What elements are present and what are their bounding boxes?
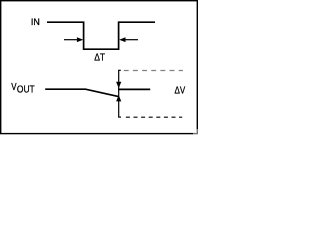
wire left ΔT arrow shaft	[64, 39, 78, 41]
up arrowhead	[116, 95, 121, 101]
wire IN waveform (high-low-high pulse)	[47, 22, 155, 49]
wire right ΔT arrow shaft	[125, 39, 138, 41]
svg-text:ΔV: ΔV	[175, 84, 186, 95]
border corner fade (bottom-right)	[193, 129, 200, 136]
right ΔT arrowhead	[119, 37, 125, 42]
border frame	[1, 1, 198, 134]
down arrowhead	[116, 82, 121, 88]
wire top dashed extension (gray)	[124, 70, 183, 72]
wire VOUT flat + droop slope	[45, 89, 118, 96]
wire bottom corner piece	[118, 116, 121, 118]
wire bottom dashed extension (black)	[126, 116, 182, 118]
svg-text:V: V	[11, 81, 16, 92]
wire VOUT continuation after sample	[118, 88, 150, 90]
svg-text:OUT: OUT	[17, 84, 35, 95]
wire top corner piece	[118, 69, 121, 71]
svg-text:IN: IN	[31, 17, 40, 27]
left ΔT arrowhead	[77, 37, 83, 42]
wire vertical measure line	[118, 70, 120, 117]
svg-text:ΔT: ΔT	[94, 52, 105, 64]
